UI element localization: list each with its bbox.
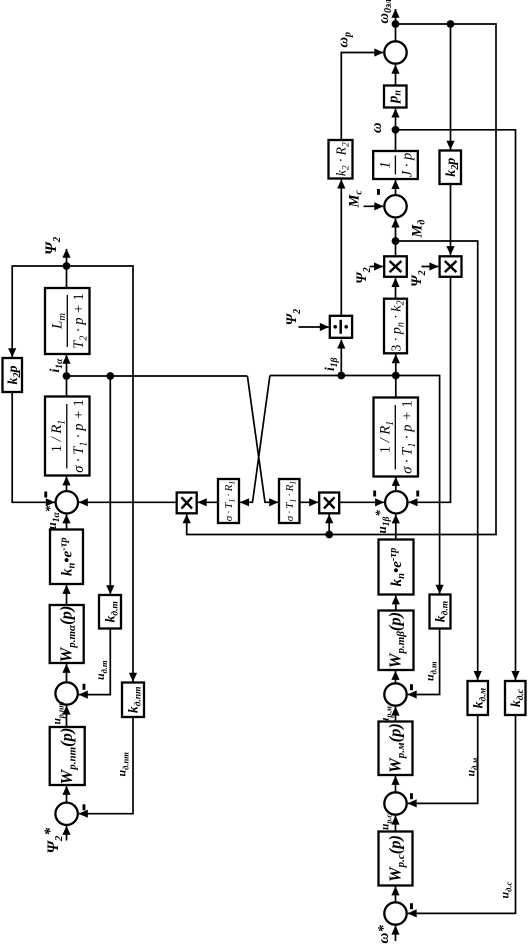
wire circle to W p.tb — [395, 671, 397, 683]
wire Psi2 stub to X2 — [422, 266, 439, 268]
wire 3pnk2 to X1 — [395, 278, 397, 299]
block k2p right — [440, 151, 462, 185]
multiplier X1 torque — [384, 256, 407, 277]
wire i1a line — [67, 375, 248, 377]
wire k2p right to X2 — [450, 184, 452, 255]
wire omega* input stub — [395, 926, 397, 941]
block W p.m torque regulator — [379, 722, 413, 776]
svg-text:1: 1 — [378, 161, 394, 168]
block sigma T1 R1 left — [218, 479, 239, 523]
wire 1/R1 right output to 3pnk2 — [395, 354, 397, 397]
node omega junction — [392, 126, 400, 134]
wire i1a to k d.t sensor — [109, 376, 111, 594]
minus sign at torque loop circle — [410, 793, 413, 799]
wire k d.t to current loop circle — [79, 629, 110, 695]
wire k2p left to u1a* circle — [12, 392, 54, 502]
wire X2 multiplier down to u1b* circle — [409, 277, 451, 503]
wire W p.pt to circle — [66, 706, 68, 727]
circle summing u1a* — [56, 491, 78, 513]
minus sign at omega* circle — [410, 903, 413, 909]
wire cross-coupling i1a to right sigmaT1R1 — [247, 376, 278, 502]
wire divider to k2R2 — [340, 180, 342, 316]
minus sign at flux loop circle — [83, 684, 86, 690]
wire omega0el feedback to multiplier left — [187, 24, 496, 535]
circle summing omega0el — [384, 41, 406, 63]
node i1b divider tap — [337, 372, 345, 380]
wire W p.ta to kn left — [66, 585, 68, 605]
minus sign at Mc input — [377, 189, 380, 195]
wire multiplier left to u1a* right input — [79, 501, 177, 503]
wire multiplier right to u1b* circle — [339, 501, 384, 503]
wire M d feedback to k d.m — [396, 241, 478, 680]
block kn e^-tau p right (converter) — [379, 540, 414, 595]
wire X1 multiplier to Mc circle — [395, 219, 397, 257]
wire Mc input stub — [364, 205, 384, 207]
block k2 R2 — [329, 140, 353, 179]
block k d.pt sensor — [122, 683, 144, 718]
wire kn right to u1b* circle — [395, 515, 397, 540]
wire omega0el output arrow — [395, 9, 397, 41]
wire k d.pt to Psi2* circle — [79, 717, 133, 814]
svg-text:σ · T1 · p + 1: σ · T1 · p + 1 — [71, 399, 90, 473]
wire circle to W p.ta — [66, 664, 68, 682]
wire Psi2 to k d.pt sensor — [67, 266, 134, 682]
wire omega0el to k2p right — [450, 24, 452, 150]
block 1/(J p) — [373, 151, 418, 179]
wire circle to W p.c — [395, 887, 397, 903]
wire circle to W p.m — [395, 776, 397, 792]
node omega0el junction — [392, 20, 400, 28]
node Psi2 junction — [63, 262, 71, 270]
wire Mc circle to 1/Jp — [395, 180, 397, 195]
minus sign at u1a* left input — [44, 492, 47, 498]
wire Psi2 output arrow — [66, 249, 68, 288]
block W p.pt flux regulator — [50, 727, 85, 785]
circle summing u1b* — [385, 491, 407, 513]
block kn e^-tau p left (converter) — [50, 530, 83, 585]
wire omega feedback to k d.c — [396, 130, 516, 680]
wire 1/R1 left output to Lm — [66, 355, 68, 397]
wire Psi2 stub to divider — [299, 326, 329, 328]
block p n — [384, 86, 407, 108]
wire i1b to divider — [340, 340, 342, 376]
multiplier X left — [177, 493, 197, 514]
wire Psi2* input stub — [66, 826, 68, 840]
node i1b junction — [392, 372, 400, 380]
block W p.ta regulator — [50, 605, 84, 663]
svg-text:J · p: J · p — [400, 153, 416, 178]
svg-text:ω: ω — [369, 123, 385, 134]
block sigma T1 R1 right — [279, 479, 300, 523]
wire u1b* circle to 1/R1 right — [395, 477, 397, 491]
block k2p left — [3, 358, 23, 392]
divider box — [330, 316, 352, 338]
wire kn left to u1a* circle — [66, 515, 68, 530]
circle summing current loop beta — [384, 683, 406, 705]
minus sign at Psi2* circle — [83, 804, 86, 810]
wire cross-coupling i1b to left sigmaT1R1 — [240, 376, 270, 503]
wire 1/Jp to p n — [395, 109, 397, 151]
block 1/R1 (sigma T1 p + 1) right — [374, 398, 419, 477]
wire k d.c to omega* circle — [408, 715, 516, 913]
block k d.m torque sensor — [468, 681, 489, 715]
wire W p.tb to kn right — [395, 596, 397, 611]
node M d junction — [392, 237, 400, 245]
block k d.t sensor right — [430, 595, 451, 629]
wire Psi2 stub to X1 — [370, 266, 383, 268]
minus sign at current loop beta circle — [410, 684, 413, 690]
block Lm/(T2p+1) — [45, 288, 90, 354]
wire i1b line to k d.t right — [270, 376, 440, 594]
wire omega p to final circle — [341, 53, 383, 141]
block W p.tb regulator — [379, 611, 414, 671]
minus sign at u1b* right input — [416, 491, 419, 497]
circle summing Mc — [384, 195, 406, 217]
circle summing current loop alpha — [55, 682, 77, 704]
wire p n to omega0el circle — [395, 65, 397, 86]
circle summing omega* input — [384, 902, 406, 924]
svg-text:σ · T1 · p + 1: σ · T1 · p + 1 — [400, 400, 419, 474]
block k d.t sensor left — [99, 595, 121, 629]
node i1a sensor tap — [106, 372, 114, 380]
wire branch to multiplier right — [328, 515, 330, 535]
wire k d.m to torque loop circle — [408, 715, 478, 803]
node i1a junction — [63, 372, 71, 380]
wire Psi2 to k2p left — [12, 266, 66, 357]
block W p.c speed regulator — [379, 832, 413, 886]
block k d.c speed sensor — [505, 681, 526, 715]
wire Psi2* circle to W p.pt — [66, 786, 68, 803]
node multiplier right tap — [325, 531, 333, 539]
wire W p.c to circle — [395, 816, 397, 832]
wire sigmaT1R1 left to multiplier left — [198, 501, 218, 503]
multiplier X2 — [440, 256, 462, 277]
node k2p right tap — [447, 20, 455, 28]
wire W p.m to circle — [395, 707, 397, 722]
block 1/R1 (sigma T1 p + 1) left — [45, 397, 90, 476]
wire sigmaT1R1 right to multiplier right — [300, 501, 319, 503]
wire u1a* circle to 1/R1 left — [66, 477, 68, 491]
minus sign at u1b* left input — [373, 491, 376, 497]
block 3 pn k2 — [384, 299, 407, 354]
wire k d.t right to current loop beta circle — [408, 629, 440, 695]
circle summing torque loop — [384, 792, 406, 814]
multiplier X right — [319, 493, 339, 514]
circle summing Psi2* input — [55, 803, 77, 825]
svg-text:ω*: ω* — [376, 925, 392, 944]
